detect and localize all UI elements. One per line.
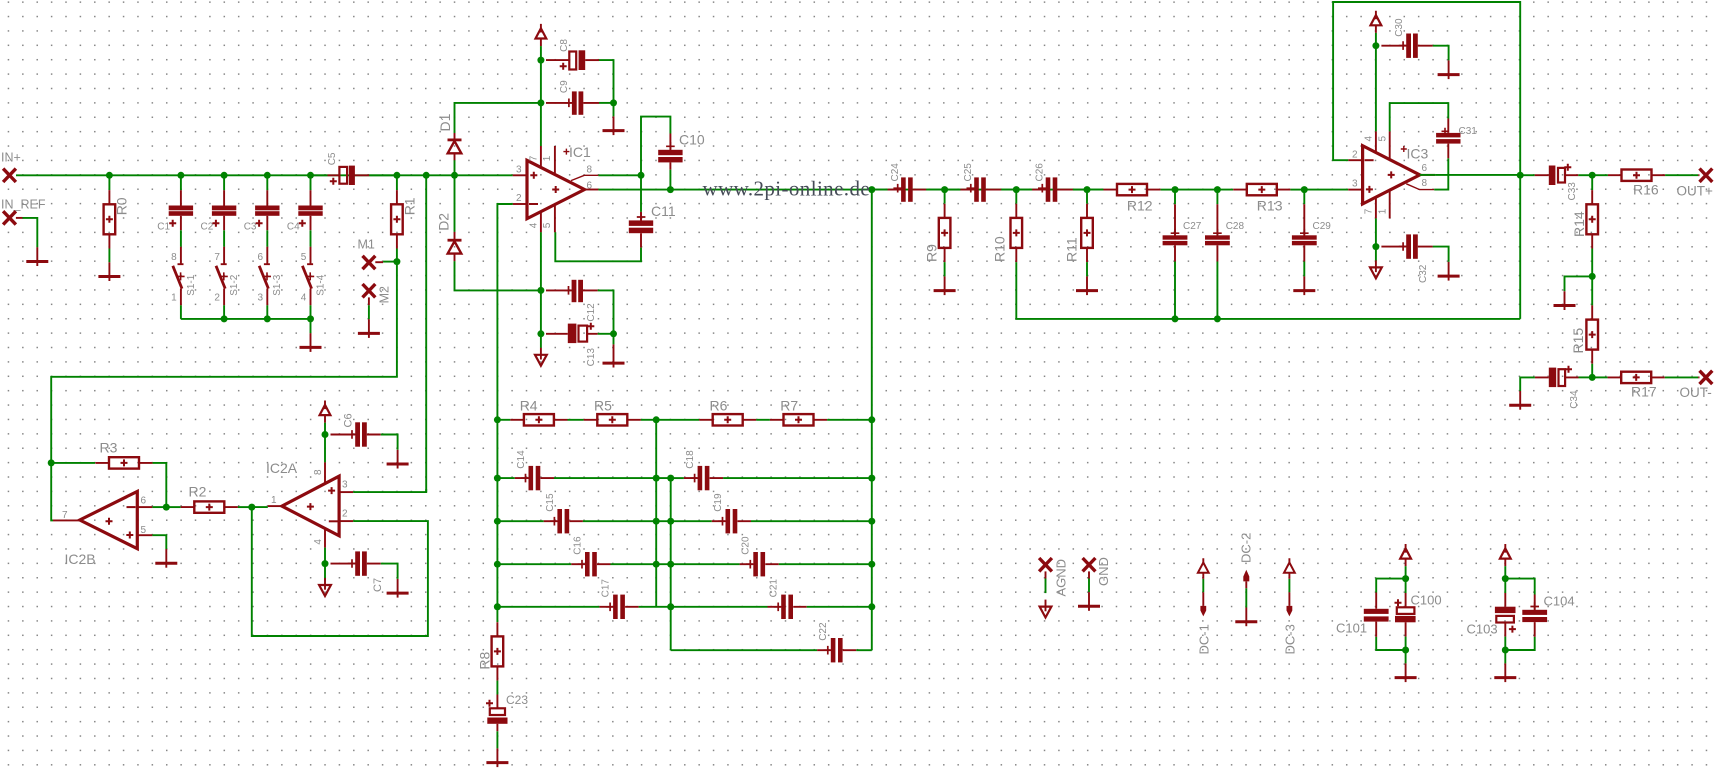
- wire IC3 pin8 to C31: [1434, 158, 1448, 189]
- wire row C15 right: [583, 520, 671, 522]
- wire C7 right to ground: [381, 564, 398, 579]
- junction R9: [941, 186, 948, 193]
- svg-text:DC-3: DC-3: [1283, 624, 1298, 654]
- wire V+ column: [540, 60, 542, 146]
- wire R8 to C23: [496, 681, 498, 695]
- svg-text:C20: C20: [741, 536, 752, 555]
- op-amp IC2A: [282, 476, 339, 536]
- svg-text:C17: C17: [601, 579, 612, 598]
- capacitor C6: [331, 434, 381, 436]
- wire row C19 right: [751, 520, 872, 522]
- resistor R10: [1015, 190, 1017, 204]
- junction C2/rail: [221, 172, 228, 179]
- wire R2 right: [238, 506, 252, 508]
- wire IC3 feedback rect: [1420, 174, 1435, 176]
- ground R0: [108, 262, 110, 281]
- junction C10/output: [667, 186, 674, 193]
- wire S1-4 bottom: [310, 305, 312, 319]
- wire bottom row C22 right: [856, 649, 872, 651]
- wire S1-1 bottom: [180, 305, 182, 319]
- wire row C14 left: [497, 477, 514, 479]
- junction row C21 right: [868, 603, 875, 610]
- capacitor C25: [960, 189, 1001, 191]
- svg-text:R3: R3: [100, 439, 118, 455]
- capacitor C2: [223, 190, 225, 230]
- wire C103 to ground: [1504, 650, 1506, 663]
- junction rail/diodes: [451, 172, 458, 179]
- svg-text:R8: R8: [476, 651, 492, 669]
- svg-text:R17: R17: [1631, 384, 1657, 400]
- svg-text:5: 5: [1377, 136, 1388, 142]
- junction C16 left: [494, 561, 501, 568]
- wire C29 top lead: [1303, 190, 1305, 205]
- svg-text:S1-1: S1-1: [186, 274, 197, 296]
- svg-text:M1: M1: [358, 238, 375, 252]
- svg-text:8: 8: [587, 164, 593, 175]
- capacitor C19: [712, 520, 751, 522]
- wire R15 bottom: [1591, 364, 1593, 378]
- junction OUT+ node: [1589, 172, 1596, 179]
- capacitor C28: [1216, 204, 1218, 261]
- wire pin4 column: [540, 232, 542, 290]
- wire C4 top lead: [310, 175, 312, 190]
- junction C3/rail: [264, 172, 271, 179]
- svg-text:3: 3: [516, 165, 522, 176]
- capacitor C22: [817, 649, 856, 651]
- svg-text:7: 7: [62, 510, 68, 521]
- net stub DC-1: [1202, 558, 1204, 579]
- wire row C19 mid: [671, 520, 712, 522]
- wire R12 left: [1087, 189, 1103, 191]
- svg-text:3: 3: [1352, 178, 1358, 189]
- svg-text:DC-1: DC-1: [1197, 624, 1212, 654]
- capacitor C104: [1534, 595, 1536, 637]
- svg-text:C11: C11: [651, 203, 676, 219]
- net stub DC-2: [1243, 570, 1249, 582]
- capacitor C15: [544, 520, 583, 522]
- junction R11: [1084, 186, 1091, 193]
- capacitor C33: [1520, 174, 1535, 176]
- svg-text:D2: D2: [436, 213, 452, 231]
- junction bus S1-2: [221, 315, 228, 322]
- wire ladder mid column: [655, 420, 657, 607]
- wire C8 right: [599, 60, 614, 103]
- capacitor C10: [669, 134, 671, 170]
- svg-text:C28: C28: [1226, 221, 1245, 232]
- svg-text:C6: C6: [342, 413, 354, 427]
- wire bottom row C22 left: [671, 649, 817, 651]
- wire C33 to junction: [1578, 174, 1592, 176]
- junction C28 bus: [1214, 315, 1221, 322]
- wire C6 right to ground: [381, 435, 398, 450]
- wire C30 right to ground: [1433, 46, 1449, 61]
- wire IC2B pin5 to ground: [152, 535, 166, 549]
- svg-text:C27: C27: [1183, 221, 1202, 232]
- ground R9: [944, 276, 946, 295]
- wire IC1 pin8: [598, 174, 641, 176]
- svg-text:C16: C16: [572, 536, 583, 555]
- svg-text:M2: M2: [377, 286, 391, 303]
- diode D2: [454, 232, 456, 261]
- wire IC2A pin3 to rail line: [353, 489, 426, 492]
- wire R3 left: [51, 462, 95, 464]
- ground arrow IC3: [1375, 260, 1377, 272]
- svg-text:C19: C19: [713, 493, 724, 512]
- svg-text:1: 1: [542, 155, 553, 161]
- wire to ground C12/C13: [613, 334, 615, 345]
- ground arrow IC2A: [324, 578, 326, 590]
- wire C2 top lead: [223, 175, 225, 190]
- wire V- to analog ground arrow: [540, 334, 542, 348]
- svg-text:GND: GND: [1096, 557, 1111, 586]
- power VCC IC3: [1375, 11, 1377, 33]
- wire C3 top lead: [266, 175, 268, 190]
- svg-text:C33: C33: [1567, 182, 1578, 201]
- ground GND: [1088, 592, 1090, 611]
- svg-text:R12: R12: [1127, 197, 1153, 213]
- capacitor C20: [740, 563, 779, 565]
- junction C8: [537, 57, 544, 64]
- junction C28 top: [1214, 186, 1221, 193]
- capacitor C18: [684, 477, 723, 479]
- svg-text:R14: R14: [1571, 211, 1587, 237]
- wire R2 to IC2A pin1: [252, 506, 268, 508]
- svg-text:2: 2: [516, 193, 522, 204]
- junction row C18 right: [868, 475, 875, 482]
- capacitor C12: [546, 289, 598, 291]
- junction C27 bus: [1172, 315, 1179, 322]
- svg-text:R7: R7: [780, 398, 798, 414]
- op-amp IC1: [527, 160, 585, 218]
- svg-text:C31: C31: [1459, 126, 1478, 137]
- svg-text:IN+: IN+: [1, 151, 21, 165]
- svg-text:C8: C8: [559, 39, 570, 52]
- wire C103 bottom: [1504, 637, 1506, 650]
- svg-text:6: 6: [258, 252, 264, 263]
- svg-text:IC2A: IC2A: [266, 460, 298, 476]
- wire IC2A pin4: [324, 548, 326, 564]
- wire IC3 pin7: [1375, 218, 1377, 246]
- ground C23: [496, 748, 498, 767]
- wire C34 to junction: [1579, 376, 1593, 378]
- junction C1/rail: [177, 172, 184, 179]
- power VCC C103: [1504, 544, 1506, 566]
- switch S1-4 pin 5: [307, 247, 313, 265]
- wire C28 top lead: [1216, 190, 1218, 205]
- wire C2 to switch: [223, 230, 225, 246]
- wire R1 bottom to M1 junction: [396, 249, 398, 262]
- svg-text:2: 2: [1352, 150, 1358, 161]
- junction C8/C9 right: [610, 99, 617, 106]
- capacitor C17: [599, 606, 638, 608]
- svg-text:OUT-: OUT-: [1680, 385, 1712, 400]
- junction R1/rail: [393, 172, 400, 179]
- svg-text:R5: R5: [594, 398, 612, 414]
- wire R7 to right column: [827, 419, 872, 421]
- junction row3 mid: [653, 561, 660, 568]
- capacitor C31: [1447, 119, 1449, 159]
- junction C21 left: [667, 603, 674, 610]
- capacitor C24: [872, 189, 888, 191]
- resistor R9: [944, 190, 946, 204]
- svg-text:C101: C101: [1336, 621, 1367, 636]
- wire row C17 right: [639, 606, 671, 608]
- svg-text:6: 6: [141, 495, 147, 506]
- svg-text:IC2B: IC2B: [65, 551, 96, 567]
- junction bus S1-3: [264, 315, 271, 322]
- capacitor C27: [1174, 204, 1176, 261]
- net stub AGND: [1039, 558, 1052, 571]
- svg-text:7: 7: [214, 252, 220, 263]
- wire row C20 mid: [671, 563, 740, 565]
- resistor R4: [510, 419, 567, 421]
- monitor point M2: [363, 284, 376, 297]
- capacitor C4: [310, 190, 312, 230]
- svg-text:AGND: AGND: [1054, 559, 1069, 597]
- junction C100 bottom: [1402, 647, 1409, 654]
- wire row C18 right: [723, 477, 872, 479]
- ground C103: [1504, 663, 1506, 682]
- wire C104 branch top: [1505, 579, 1534, 595]
- junction C17 left: [494, 603, 501, 610]
- svg-text:R1: R1: [402, 197, 418, 215]
- svg-text:6: 6: [587, 180, 593, 191]
- capacitor C30: [1381, 45, 1432, 47]
- junction C19 left: [667, 518, 674, 525]
- svg-text:C21: C21: [769, 579, 780, 598]
- junction C14 left: [494, 475, 501, 482]
- svg-text:OUT+: OUT+: [1677, 183, 1713, 198]
- wire C9 right: [599, 102, 614, 104]
- wire C23 to ground: [496, 731, 498, 748]
- svg-text:C3: C3: [244, 222, 257, 233]
- wire R17 to OUT-: [1665, 376, 1698, 378]
- resistor R11: [1086, 190, 1088, 204]
- junction M1/R1: [393, 258, 400, 265]
- wire R10 to feedback bus: [1016, 262, 1520, 319]
- junction pin8/C10/C11: [638, 172, 645, 179]
- junction C18 left: [667, 475, 674, 482]
- capacitor C32: [1381, 246, 1432, 248]
- diode D1: [454, 133, 456, 160]
- capacitor C100: [1405, 579, 1407, 593]
- wire R5 to mid junction: [641, 419, 656, 421]
- svg-text:1: 1: [271, 495, 277, 506]
- junction row2 mid: [653, 518, 660, 525]
- junction C7: [322, 560, 329, 567]
- wire M2 to ground: [368, 305, 370, 319]
- svg-text:R2: R2: [189, 483, 207, 499]
- wire C5 to R1 junction: [369, 174, 397, 176]
- capacitor C11: [640, 212, 642, 248]
- ground arrow V-: [540, 348, 542, 360]
- wire R0 bottom: [108, 249, 110, 263]
- svg-text:C23: C23: [506, 693, 528, 707]
- svg-text:7: 7: [1364, 208, 1375, 214]
- capacitor C1: [180, 190, 182, 230]
- wire R4 left: [497, 419, 510, 421]
- node OUT+: [1700, 169, 1713, 182]
- junction R10: [1013, 186, 1020, 193]
- junction C6: [322, 431, 329, 438]
- wire row C17 left: [497, 606, 599, 608]
- wire mid node to ground: [1565, 276, 1593, 291]
- svg-text:3: 3: [258, 292, 264, 303]
- svg-text:IC1: IC1: [569, 144, 591, 160]
- wire R0 top lead: [108, 175, 110, 190]
- wire C4 to switch: [310, 230, 312, 246]
- capacitor C14: [515, 477, 554, 479]
- ground C32: [1448, 262, 1450, 281]
- switch S1-4 blade: [302, 266, 311, 289]
- svg-text:4: 4: [528, 222, 539, 228]
- svg-text:S1-4: S1-4: [315, 274, 326, 296]
- svg-text:D1: D1: [437, 113, 453, 131]
- resistor R1: [396, 175, 398, 190]
- net stub DC-3: [1288, 558, 1290, 579]
- svg-text:8: 8: [171, 252, 177, 263]
- wire R6-R7: [756, 419, 770, 421]
- svg-text:C26: C26: [1035, 163, 1046, 182]
- svg-text:C7: C7: [372, 578, 384, 592]
- capacitor C21: [768, 606, 807, 608]
- svg-text:C10: C10: [679, 132, 705, 148]
- wire S1-3 bottom: [266, 305, 268, 319]
- wire C104 branch bottom: [1505, 637, 1534, 650]
- junction C100 top: [1402, 575, 1409, 582]
- svg-text:4: 4: [301, 292, 307, 303]
- wire to ground C9: [613, 103, 615, 117]
- wire R16 to OUT+: [1665, 174, 1698, 176]
- op-amp IC2B: [80, 491, 138, 548]
- svg-text:R0: R0: [114, 197, 130, 215]
- wire R14 bottom: [1591, 249, 1593, 277]
- junction R4 row left: [494, 416, 501, 423]
- switch S1-3 pin 6: [264, 247, 270, 265]
- svg-text:C4: C4: [287, 222, 300, 233]
- junction IC2B pin6/R2: [163, 504, 170, 511]
- svg-text:C12: C12: [586, 303, 597, 322]
- svg-text:C24: C24: [890, 163, 901, 182]
- svg-text:C14: C14: [516, 450, 527, 469]
- ground R11: [1086, 276, 1088, 295]
- capacitor C26: [1032, 189, 1073, 191]
- svg-text:C9: C9: [559, 80, 570, 93]
- capacitor C13: [546, 333, 598, 335]
- wire C100 to ground: [1405, 650, 1407, 663]
- svg-text:2: 2: [214, 292, 220, 303]
- switch S1-1 pin 8: [178, 247, 184, 265]
- wire R11 bottom: [1086, 262, 1088, 276]
- wire feedback bus riser: [1519, 175, 1521, 319]
- wire IN_REF to ground: [16, 217, 23, 219]
- resistor R6: [699, 419, 756, 421]
- svg-text:C29: C29: [1313, 221, 1332, 232]
- junction bus S1-4: [307, 315, 314, 322]
- junction row C19 right: [868, 518, 875, 525]
- wire C12 right: [598, 290, 614, 333]
- svg-text:S1-2: S1-2: [229, 274, 240, 296]
- junction feedback drop: [868, 186, 875, 193]
- wire C27-C28 rail: [1175, 189, 1217, 191]
- ground C100: [1405, 663, 1407, 682]
- wire ladder second column: [670, 478, 672, 650]
- junction C27 top: [1172, 186, 1179, 193]
- resistor R5: [584, 419, 641, 421]
- wire mid to R6: [656, 419, 699, 421]
- wire VCC to C103 junction: [1504, 566, 1506, 578]
- capacitor C23: [496, 695, 498, 732]
- switch S1-1 blade: [173, 266, 182, 289]
- svg-text:R10: R10: [992, 236, 1008, 262]
- svg-text:R16: R16: [1633, 182, 1659, 198]
- wire C3 to switch: [266, 230, 268, 246]
- svg-text:5: 5: [542, 222, 553, 228]
- wire R9 bottom: [944, 262, 946, 276]
- svg-text:5: 5: [301, 252, 307, 263]
- svg-text:5: 5: [141, 525, 147, 536]
- svg-text:IN_REF: IN_REF: [1, 198, 46, 212]
- wire row C16 right: [611, 563, 671, 565]
- svg-text:6: 6: [1422, 163, 1428, 174]
- switch S1-2 pin 2: [223, 289, 225, 306]
- junction C21 row second column: [667, 603, 674, 610]
- svg-text:C1: C1: [157, 222, 170, 233]
- junction R0/rail: [106, 172, 113, 179]
- wire C24-C25: [945, 189, 961, 191]
- wire VCC to C8 junction: [540, 46, 542, 60]
- ground C34: [1519, 391, 1521, 410]
- wire C32 right to ground: [1433, 247, 1449, 262]
- svg-text:C22: C22: [818, 622, 829, 641]
- junction rail/IC2A pin3 line: [423, 172, 430, 179]
- wire IC3 pin7 to ground arrow: [1375, 247, 1377, 261]
- wire output rail: [598, 189, 1103, 191]
- wire C13 right: [598, 333, 614, 335]
- ground IC2B pin5: [165, 549, 167, 568]
- node OUT-: [1700, 371, 1713, 384]
- wire R3 right to pin6 node: [153, 463, 167, 507]
- power VCC IC2A: [324, 401, 326, 423]
- wire S1-2 bottom: [223, 305, 225, 319]
- svg-text:R4: R4: [520, 398, 538, 414]
- svg-text:C25: C25: [963, 163, 974, 182]
- wire row C14 right: [554, 477, 671, 479]
- wire R8 top lead: [496, 607, 498, 622]
- junction C12/C13 right: [610, 330, 617, 337]
- switch S1-2 blade: [216, 266, 225, 289]
- svg-text:C30: C30: [1394, 18, 1405, 37]
- svg-text:R11: R11: [1064, 237, 1080, 262]
- wire C29 bottom: [1303, 262, 1305, 277]
- ground C7: [397, 579, 399, 598]
- wire C28 bottom: [1216, 262, 1218, 319]
- wire D2 bottom to V- node: [455, 261, 541, 290]
- junction C29 top: [1301, 186, 1308, 193]
- wire D1 top to V+ node: [455, 103, 541, 133]
- ground C12/C13: [603, 362, 625, 365]
- svg-text:7: 7: [528, 155, 539, 161]
- capacitor C7: [331, 563, 381, 565]
- op-amp IC3: [1363, 146, 1420, 204]
- junction C20 left: [667, 561, 674, 568]
- svg-text:C104: C104: [1544, 594, 1575, 609]
- wire rail to IC3 pin3: [1304, 189, 1348, 191]
- junction C103 bottom: [1502, 647, 1509, 654]
- wire VCC to C6 junction: [324, 423, 326, 435]
- svg-text:C15: C15: [545, 493, 556, 512]
- wire C1 to switch: [180, 230, 182, 246]
